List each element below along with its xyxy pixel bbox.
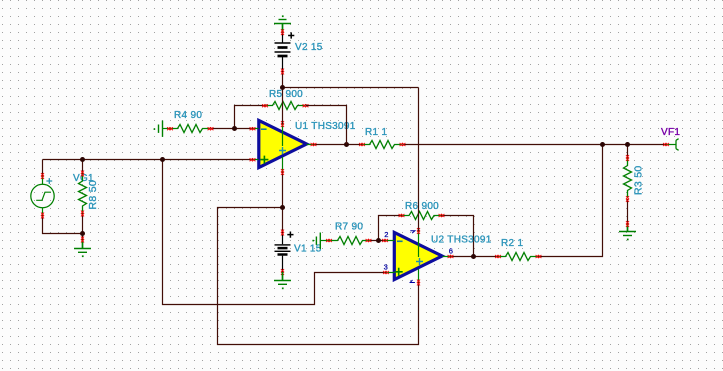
label R7 90	[335, 222, 363, 233]
svg-text:R2 1: R2 1	[501, 238, 523, 249]
resistor R8	[79, 174, 87, 214]
label R1 1	[365, 127, 387, 138]
op-amp U1 THS3091	[253, 120, 314, 172]
wire: VG1 bottom to R8 bottom node	[43, 216, 83, 234]
pin number 6	[449, 247, 453, 256]
pin cross R3 top	[626, 155, 629, 161]
svg-text:R4 90: R4 90	[174, 110, 202, 121]
pin cross R4 right	[208, 127, 214, 130]
wire: U1 output to R1	[314, 144, 363, 146]
label VG1	[73, 173, 94, 184]
pin number 2	[384, 230, 388, 239]
label V2 15	[295, 42, 323, 53]
svg-text:V1 15: V1 15	[294, 244, 322, 255]
wire: V2 bottom pin to supply junction	[282, 72, 284, 88]
op-amp U2 THS3091	[385, 231, 451, 283]
pin cross U1 V-	[281, 169, 284, 175]
wire: R6 right down to U2 output node	[442, 216, 474, 257]
pin number 3	[384, 262, 388, 271]
pin cross V2 top	[281, 29, 284, 35]
label R5 900	[269, 89, 303, 100]
resistor R5	[265, 102, 305, 110]
pin cross VG1 top	[41, 173, 44, 179]
label U2 THS3091	[431, 235, 492, 246]
svg-text:U2 THS3091: U2 THS3091	[431, 235, 492, 246]
wire: U1 V- pin down to V1 plus	[282, 172, 284, 233]
label U1 THS3091	[295, 121, 356, 132]
svg-text:R8 50: R8 50	[87, 180, 99, 210]
voltage pin VF1	[666, 139, 679, 151]
pin cross R3 ground	[626, 221, 629, 227]
junction VG1 / R8 bottom	[80, 231, 85, 236]
resistor R6	[402, 212, 442, 220]
svg-text:2: 2	[384, 230, 388, 239]
wire: R4 to U1 inverting input	[211, 128, 253, 130]
ground below V1	[274, 272, 291, 289]
label R2 1	[501, 238, 523, 249]
junction U1 output / R5	[344, 142, 349, 147]
junction input rail / R8	[80, 157, 85, 162]
junction V1 / negative supply loop	[280, 205, 285, 210]
pin cross U2 output	[448, 255, 454, 258]
pin cross VF1	[663, 143, 669, 146]
pin cross R1 right	[400, 143, 406, 146]
pin cross R8 bottom	[81, 211, 84, 217]
junction U2 output / R6	[471, 254, 476, 259]
label R3 50 (rotated)	[633, 165, 645, 195]
wire: R8 bottom to ground node	[82, 214, 84, 240]
pin cross R8 ground	[81, 237, 84, 243]
junction output node / R2 branch	[600, 142, 605, 147]
resistor R3	[624, 158, 632, 198]
svg-text:R7 90: R7 90	[335, 222, 363, 233]
pin cross VG1 bottom	[41, 213, 44, 219]
junction U2 inverting node / R6	[376, 238, 381, 243]
wire: noninverting input rail	[43, 159, 253, 161]
ground below R8	[74, 240, 91, 258]
pin number 7 (V+)	[410, 231, 415, 233]
ground below R3	[619, 224, 636, 240]
wire: R1 to output node and VF1	[403, 144, 667, 146]
wire: R8 top pin	[82, 160, 84, 174]
wire: VG1 top pin	[42, 160, 44, 177]
pin cross R6 left	[399, 214, 405, 217]
pin cross U2 V+	[417, 228, 420, 234]
junction at supply node V2/U1	[280, 85, 285, 90]
label V1 15	[294, 244, 322, 255]
pin cross U1 inverting input	[250, 127, 256, 130]
pin cross U1 output	[311, 143, 317, 146]
pin cross R2 left	[495, 255, 501, 258]
wire: U2 output to R2	[451, 256, 499, 258]
wire: R2 up to output node	[539, 145, 603, 257]
svg-text:V2 15: V2 15	[295, 42, 323, 53]
label VF1	[661, 127, 680, 138]
pin cross U2 noninverting input	[383, 271, 389, 274]
pin number 4 (V-)	[410, 280, 415, 283]
pin cross R7 right	[366, 239, 372, 242]
wire: R6 left down to U2 inverting node	[379, 216, 402, 241]
svg-text:R6 900: R6 900	[405, 201, 439, 212]
wire: node A up and over to R5 left	[235, 106, 266, 129]
wire: R7 to U2 inverting input	[369, 240, 386, 242]
pin cross U1 noninverting input	[250, 158, 256, 161]
junction input rail / U2 branch	[160, 157, 165, 162]
svg-text:VF1: VF1	[661, 127, 680, 138]
pin cross R3 bottom	[626, 196, 629, 202]
label R6 900	[405, 201, 439, 212]
wire: top supply rail to U2 branch	[283, 87, 419, 89]
pin cross R2 right	[536, 255, 542, 258]
pin cross U1 V+	[281, 121, 284, 127]
resistor R7	[329, 237, 370, 245]
pin cross U2 V-	[417, 280, 420, 286]
label R8 50 (rotated)	[87, 180, 99, 210]
wire: R3 top pin	[627, 145, 629, 159]
voltage source VG1	[31, 176, 54, 216]
voltage source V1 15 (battery)	[275, 232, 294, 273]
voltage source V2 15 (battery)	[275, 32, 295, 71]
junction output node / R3	[625, 142, 630, 147]
pin cross V2 bottom	[281, 69, 284, 75]
svg-text:6: 6	[449, 247, 453, 256]
pin cross R6 right	[439, 214, 445, 217]
wire: input rail down and over to U2 noninverting input	[163, 160, 387, 305]
pin cross V1 top	[281, 230, 284, 236]
pin cross U2 inverting input	[382, 239, 388, 242]
pin cross R5 left	[262, 104, 268, 107]
pin cross R4 left	[167, 127, 173, 130]
ground (inverted) above V2	[274, 15, 291, 32]
pin cross R1 left	[359, 143, 365, 146]
input port for R7	[312, 233, 329, 249]
label R4 90	[174, 110, 202, 121]
wire: R3 bottom to ground	[627, 199, 629, 224]
resistor R4	[170, 125, 210, 133]
input port for R4	[154, 121, 170, 137]
wire: R5 right down to U1 output node	[306, 106, 347, 145]
pin cross V1 bottom	[281, 269, 284, 275]
svg-text:R3 50: R3 50	[633, 165, 645, 195]
junction node A (U1 inverting input)	[232, 126, 237, 131]
svg-text:R1 1: R1 1	[365, 127, 387, 138]
svg-text:R5 900: R5 900	[269, 89, 303, 100]
wire: down to U2 V+ pin (crosses output wire and R6)	[418, 88, 420, 232]
resistor R2	[498, 253, 539, 261]
pin cross R8 top	[81, 171, 84, 177]
svg-text:3: 3	[384, 262, 388, 271]
pin cross R5 right	[303, 104, 309, 107]
wire: negative supply loop to U2 V- pin	[218, 208, 419, 345]
resistor R1	[362, 141, 402, 149]
pin cross R7 left	[326, 239, 332, 242]
wire: supply junction down to U1 V+ pin (crosses R5)	[282, 88, 284, 125]
